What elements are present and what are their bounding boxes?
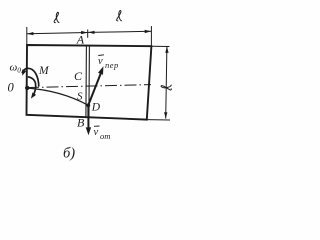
svg-text:от: от xyxy=(100,131,110,141)
vector v_ot arrowhead xyxy=(86,127,91,135)
plate rectangle outline xyxy=(27,45,152,120)
svg-text:v: v xyxy=(94,127,99,138)
dimension arrow right-left xyxy=(88,31,95,34)
svg-text:C: C xyxy=(74,69,83,83)
dimension arrow vertical top xyxy=(165,46,168,53)
dimension arrow right-right xyxy=(145,30,152,33)
dimension arrow left-left xyxy=(27,32,34,35)
vector v_ot arrow shaft xyxy=(87,105,89,129)
extension line left xyxy=(26,27,28,45)
dimension line l vertical right xyxy=(166,47,167,119)
omega0 arc arrowhead xyxy=(22,70,26,76)
svg-text:ω0: ω0 xyxy=(10,62,22,75)
extension tick middle xyxy=(87,30,89,38)
rod OD xyxy=(27,88,88,105)
svg-text:D: D xyxy=(91,102,101,114)
dimension arrow vertical bottom xyxy=(164,112,167,119)
svg-text:0: 0 xyxy=(8,81,15,95)
label l right xyxy=(117,11,122,21)
label l vertical (rotated) xyxy=(161,85,171,90)
moment M arc (clockwise arrow) xyxy=(28,77,36,96)
extension line right-bottom horizontal xyxy=(147,119,170,121)
svg-text:пер: пер xyxy=(105,60,119,70)
label v_per overbar xyxy=(98,54,104,57)
slot AB left wall xyxy=(85,46,88,118)
dash-dot centerline O to right edge xyxy=(27,85,151,88)
dimension arrow left-right xyxy=(81,31,88,34)
moment M arc arrowhead xyxy=(31,92,36,98)
dimension line l right segment xyxy=(88,31,151,32)
extension line right-top horizontal xyxy=(152,45,170,47)
point D (slider) xyxy=(86,103,90,107)
svg-text:S: S xyxy=(77,91,83,103)
dimension line l left segment xyxy=(27,33,88,34)
svg-text:B: B xyxy=(77,116,85,130)
omega0 arc (counterclockwise arrow) xyxy=(22,68,39,86)
vector v_per arrow shaft xyxy=(89,71,102,105)
svg-text:v: v xyxy=(98,56,103,67)
vector v_per arrowhead xyxy=(98,66,103,74)
slot AB right wall xyxy=(88,46,91,118)
label l left xyxy=(54,12,59,22)
svg-text:A: A xyxy=(76,32,85,46)
svg-text:M: M xyxy=(38,65,50,77)
extension line right top xyxy=(150,26,152,46)
pivot point O xyxy=(25,86,29,90)
label v_ot overbar xyxy=(94,125,100,127)
svg-text:б): б) xyxy=(63,146,75,162)
